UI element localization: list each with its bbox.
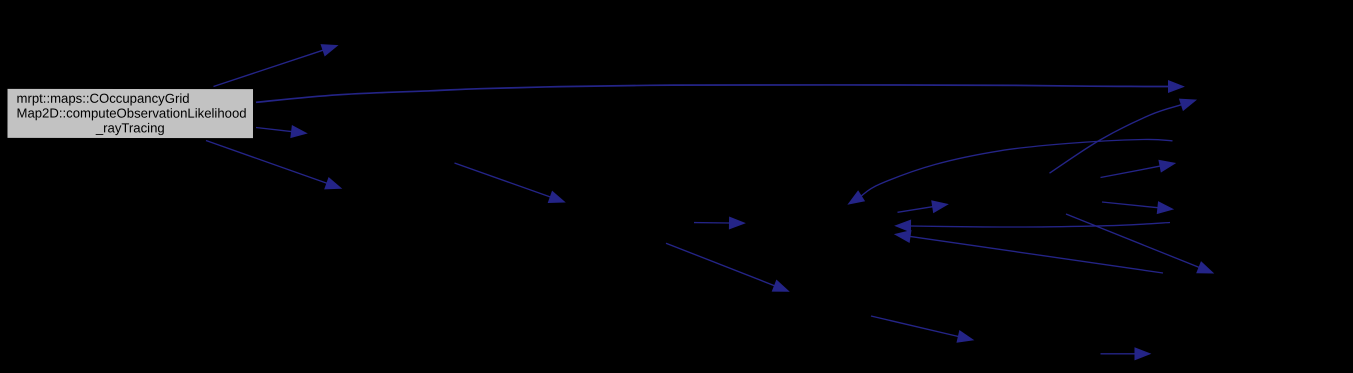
short edge right of main node	[256, 126, 307, 138]
long edge lower-right to center node	[895, 231, 1163, 273]
svg-text:Map2D::computeObservationLikel: Map2D::computeObservationLikelihood	[16, 106, 246, 121]
node box mrpt::maps::COccupancyGridMap2D::computeObservationLikelihood_rayTracing	[6, 88, 254, 139]
short edge up-right from center node	[898, 201, 948, 213]
long edge to far right node	[256, 81, 1184, 103]
edge mid-left diagonal	[455, 163, 565, 203]
edge down-right from main node	[206, 141, 341, 189]
edge to mrpt::maps::CLogOddsGridMapLUT node (up-right)	[214, 45, 338, 87]
long horizontal edge right-to-left	[896, 220, 1171, 232]
svg-text:mrpt::maps::COccupancyGrid: mrpt::maps::COccupancyGrid	[17, 91, 190, 106]
diagonal edge middle-down	[666, 243, 789, 291]
svg-text:_rayTracing: _rayTracing	[95, 120, 165, 135]
short edge to right node lower	[1102, 202, 1173, 214]
small horizontal edge bottom right	[1101, 348, 1151, 360]
short edge to right node upper	[1101, 160, 1175, 177]
short horizontal edge middle	[694, 217, 745, 229]
long arc from right node to center node	[849, 139, 1173, 204]
curved edge up to top right node	[1050, 99, 1196, 173]
edge bottom middle	[871, 316, 973, 342]
edge down to bottom right node	[1066, 214, 1213, 273]
